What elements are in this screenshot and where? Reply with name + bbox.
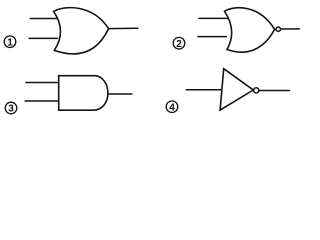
wire: NOR gate output <box>281 28 300 30</box>
svg-text:4: 4 <box>169 102 175 113</box>
svg-text:1: 1 <box>7 37 13 48</box>
label 2 (circled) <box>173 37 185 50</box>
wire: OR gate output <box>109 27 139 29</box>
wire: NOR gate input A <box>198 17 229 19</box>
wire: NOT gate output <box>259 90 290 92</box>
label 4 (circled) <box>166 101 178 114</box>
nor-gate G2 body <box>225 8 275 52</box>
label 1 (circled) <box>4 36 16 49</box>
not-gate (inverter) G4 triangle <box>220 69 253 110</box>
or-gate G1 body <box>54 8 109 54</box>
wire: OR gate input A <box>30 18 58 20</box>
wire: AND gate output <box>108 93 133 95</box>
wire: AND gate input B <box>25 100 59 102</box>
nor-gate G2 output bubble <box>276 27 280 31</box>
wire: NOR gate input B <box>197 36 227 38</box>
label 3 (circled) <box>5 102 17 115</box>
svg-text:2: 2 <box>176 39 182 50</box>
wire: OR gate input B <box>29 37 59 39</box>
wire: AND gate input A <box>25 82 58 84</box>
wire: NOT gate input <box>186 89 223 91</box>
svg-text:3: 3 <box>8 104 14 115</box>
not-gate G4 output bubble <box>254 88 259 93</box>
and-gate G3 body <box>59 76 108 111</box>
